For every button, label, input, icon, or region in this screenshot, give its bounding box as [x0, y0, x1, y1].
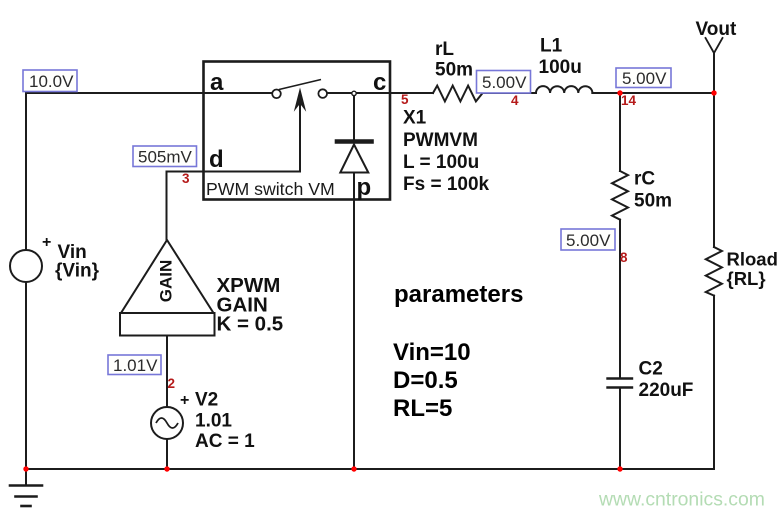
svg-text:Fs = 100k: Fs = 100k: [403, 174, 490, 195]
svg-text:rL: rL: [435, 39, 454, 60]
svg-text:K = 0.5: K = 0.5: [217, 313, 284, 336]
svg-text:Vout: Vout: [696, 19, 737, 40]
svg-text:RL=5: RL=5: [393, 395, 452, 422]
svg-text:5.00V: 5.00V: [566, 231, 611, 250]
svg-text:8: 8: [620, 250, 628, 265]
svg-text:rC: rC: [634, 169, 655, 190]
svg-text:AC = 1: AC = 1: [195, 431, 255, 452]
svg-text:220uF: 220uF: [639, 380, 694, 401]
svg-text:100u: 100u: [539, 57, 582, 78]
svg-text:{RL}: {RL}: [727, 268, 766, 289]
svg-text:Rload: Rload: [727, 249, 778, 270]
svg-text:www.cntronics.com: www.cntronics.com: [598, 489, 765, 511]
svg-text:PWM switch VM: PWM switch VM: [206, 179, 335, 199]
svg-text:5.00V: 5.00V: [482, 73, 527, 92]
svg-text:D=0.5: D=0.5: [393, 367, 458, 394]
svg-text:4: 4: [511, 93, 519, 108]
svg-text:14: 14: [621, 93, 637, 108]
svg-text:505mV: 505mV: [138, 148, 193, 167]
svg-text:PWMVM: PWMVM: [403, 130, 478, 151]
svg-text:L1: L1: [540, 36, 563, 57]
svg-text:3: 3: [182, 171, 190, 186]
svg-text:c: c: [373, 69, 386, 96]
svg-text:X1: X1: [403, 108, 427, 129]
svg-text:parameters: parameters: [394, 281, 523, 308]
svg-text:50m: 50m: [435, 59, 473, 80]
svg-text:Vin=10: Vin=10: [393, 339, 471, 366]
svg-text:GAIN: GAIN: [156, 260, 175, 303]
svg-text:2: 2: [168, 376, 176, 391]
svg-text:C2: C2: [639, 359, 663, 380]
svg-text:1.01V: 1.01V: [113, 356, 158, 375]
svg-text:1.01: 1.01: [195, 411, 232, 432]
svg-text:50m: 50m: [634, 191, 672, 212]
svg-text:L = 100u: L = 100u: [403, 152, 479, 173]
svg-text:{Vin}: {Vin}: [55, 261, 100, 282]
svg-text:V2: V2: [195, 390, 218, 411]
svg-text:+: +: [42, 234, 51, 251]
svg-text:a: a: [210, 69, 224, 96]
svg-text:5.00V: 5.00V: [622, 69, 667, 88]
svg-text:10.0V: 10.0V: [29, 72, 74, 91]
svg-text:d: d: [209, 146, 224, 173]
svg-text:+: +: [180, 392, 189, 409]
svg-text:5: 5: [401, 92, 409, 107]
svg-text:p: p: [357, 174, 372, 201]
